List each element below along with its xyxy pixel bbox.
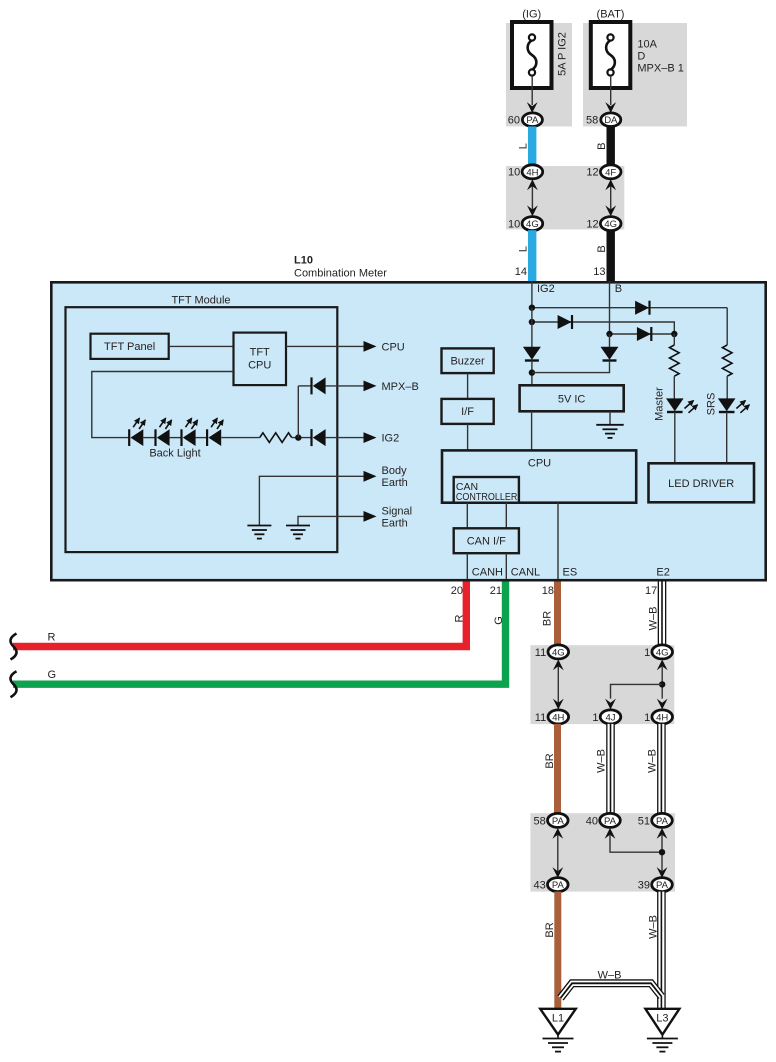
svg-text:4G: 4G: [552, 647, 565, 658]
svg-text:10: 10: [508, 219, 520, 231]
wire L cyan upper: [528, 126, 536, 165]
node dot B row3: [606, 331, 612, 337]
gray bg connector block 3: [530, 813, 675, 891]
connector 4H block2 right: [652, 710, 673, 724]
5V IC box: [520, 385, 624, 411]
wire fuse IG to connector: [531, 76, 533, 105]
svg-text:Buzzer: Buzzer: [450, 356, 485, 368]
svg-text:G: G: [493, 616, 505, 625]
wire W-B horizontal link: [561, 983, 662, 998]
svg-text:4H: 4H: [526, 167, 538, 178]
wire IF to CPU: [467, 424, 469, 451]
svg-text:B: B: [615, 283, 622, 295]
wire MPX-B row: [298, 385, 311, 387]
wire LED2-LED3: [170, 437, 182, 439]
svg-text:IG2: IG2: [537, 283, 555, 295]
svg-text:10: 10: [508, 167, 520, 179]
svg-text:21: 21: [490, 585, 502, 597]
wire SRS column: [726, 308, 728, 345]
wire body earth: [259, 476, 364, 525]
wire CC to CANIF left: [466, 503, 468, 529]
connector 4G left: [522, 217, 543, 231]
node dot master junction: [671, 331, 677, 337]
arrow MPX-B: [364, 381, 377, 392]
svg-text:TFT: TFT: [250, 346, 270, 358]
svg-text:1: 1: [644, 712, 650, 724]
wire resistor to master LED: [673, 376, 675, 399]
wire B column down: [609, 334, 611, 347]
svg-text:CPU: CPU: [528, 457, 551, 469]
CPU box: [442, 450, 636, 502]
connector PA (IG): [522, 113, 542, 127]
wire W-B upper: [658, 582, 667, 647]
wire master LED to driver: [674, 412, 676, 463]
svg-text:4F: 4F: [605, 167, 616, 178]
LED backlight 2: [156, 418, 172, 446]
node B entry: [609, 281, 611, 334]
wire CANH to edge: [466, 553, 468, 579]
svg-text:Signal: Signal: [382, 505, 413, 517]
wire B black upper: [607, 126, 615, 165]
arrow Body Earth: [364, 471, 377, 482]
svg-text:L: L: [518, 246, 530, 252]
svg-text:L10: L10: [294, 255, 313, 267]
wire row1 IG2 to SRS column: [532, 307, 727, 309]
wire W-B lower: [657, 892, 666, 1009]
svg-text:W–B: W–B: [647, 749, 659, 773]
wire TFT Panel to TFT CPU: [169, 345, 234, 347]
gray bg connector block 2: [530, 645, 674, 724]
svg-text:B: B: [596, 245, 608, 252]
connector PA 39: [652, 878, 673, 892]
svg-text:CONTROLLER: CONTROLLER: [456, 491, 518, 503]
wire resistor to node: [292, 437, 311, 439]
connector 4G right: [600, 217, 621, 231]
CAN CONTROLLER box: [454, 477, 519, 503]
svg-text:G: G: [48, 669, 57, 681]
node dot IG2 row1: [529, 305, 535, 311]
LED SRS: [718, 398, 750, 412]
connector 4H: [522, 165, 543, 179]
svg-text:5A P IG2: 5A P IG2: [557, 32, 569, 76]
ground TFT signal earth: [286, 526, 310, 539]
arrow into DA: [605, 102, 616, 113]
svg-text:BR: BR: [542, 611, 554, 626]
svg-text:(IG): (IG): [522, 9, 541, 21]
node IG2 entry: [531, 281, 533, 308]
wire L cyan lower: [528, 230, 536, 281]
break symbol green: [10, 671, 16, 697]
svg-text:L3: L3: [656, 1013, 668, 1025]
svg-text:1: 1: [644, 647, 650, 659]
wire B black lower: [607, 230, 615, 281]
diode B down: [601, 347, 619, 361]
svg-text:PA: PA: [656, 816, 669, 827]
ground symbol L1: [543, 1035, 574, 1052]
diode MPX-B row (TFT): [312, 377, 326, 394]
ground symbol L3: [647, 1035, 678, 1052]
svg-text:W–B: W–B: [596, 749, 608, 773]
fuse value 10A D MPX-B 1: [637, 39, 683, 75]
svg-text:43: 43: [534, 880, 546, 892]
svg-text:W–B: W–B: [598, 970, 622, 982]
wire CC to CANIF right: [505, 503, 507, 529]
svg-text:4H: 4H: [656, 712, 668, 723]
I/F box: [442, 399, 494, 424]
resistor master: [670, 345, 680, 376]
svg-text:LED DRIVER: LED DRIVER: [668, 478, 734, 490]
combination meter box L10: [51, 282, 765, 580]
resistor SRS: [722, 345, 732, 376]
svg-text:SRS: SRS: [706, 393, 718, 416]
wire master column: [673, 334, 675, 345]
svg-text:Earth: Earth: [382, 477, 408, 489]
LED master: [666, 398, 698, 412]
arrow into PA: [527, 102, 538, 113]
resistor backlight: [260, 433, 292, 443]
connector PA 58: [548, 813, 569, 827]
wire 5VIC to ground: [609, 411, 611, 425]
TFT CPU box: [234, 333, 287, 386]
arrow Signal Earth: [364, 511, 377, 522]
wire signal earth: [298, 516, 364, 525]
svg-text:MPX–B 1: MPX–B 1: [637, 63, 683, 75]
svg-text:58: 58: [534, 815, 546, 827]
svg-text:CPU: CPU: [382, 342, 405, 354]
svg-text:PA: PA: [552, 880, 565, 891]
svg-text:Combination Meter: Combination Meter: [294, 268, 387, 280]
diode row1: [635, 301, 649, 315]
wire R red CANH: [13, 582, 466, 647]
svg-text:1: 1: [592, 712, 598, 724]
svg-text:10A: 10A: [637, 39, 657, 51]
svg-text:51: 51: [638, 815, 650, 827]
double arrow left block1: [527, 179, 538, 216]
svg-text:Body: Body: [382, 465, 408, 477]
svg-text:PA: PA: [552, 816, 565, 827]
svg-text:4G: 4G: [526, 219, 539, 230]
wire W-B mid left: [606, 724, 615, 816]
svg-text:B: B: [596, 143, 608, 150]
wire TFT CPU left down to backlight: [92, 372, 234, 438]
wire LED4 to resistor: [221, 437, 260, 439]
wire LED3-LED4: [196, 437, 208, 439]
wire diode to IG2 arrow: [326, 437, 364, 439]
arrow split block2 right: [605, 660, 668, 710]
svg-text:D: D: [637, 51, 645, 63]
svg-text:13: 13: [593, 266, 605, 278]
wire 5VIC to CPU: [531, 411, 533, 450]
svg-text:60: 60: [508, 115, 520, 127]
wire node up to MPX-B row: [297, 386, 299, 438]
svg-text:CPU: CPU: [248, 359, 271, 371]
wire SRS LED to driver: [726, 412, 728, 463]
double arrow block3 left: [552, 828, 563, 878]
wire row3 B to master column: [610, 333, 675, 335]
LED backlight 3: [182, 418, 198, 446]
svg-text:4G: 4G: [656, 647, 669, 658]
svg-text:BR: BR: [544, 922, 556, 937]
svg-text:20: 20: [451, 585, 463, 597]
svg-text:PA: PA: [604, 816, 617, 827]
wire BR upper: [554, 582, 561, 647]
svg-text:E2: E2: [656, 567, 669, 579]
svg-text:39: 39: [638, 880, 650, 892]
ground triangle L1: [540, 1009, 576, 1035]
fuse 10A D MPX-B 1: [591, 22, 631, 88]
LED backlight 4: [207, 418, 223, 446]
svg-text:58: 58: [586, 115, 598, 127]
svg-text:12: 12: [586, 167, 598, 179]
double arrow block2 left: [553, 660, 564, 710]
connector 4H block2 left: [548, 710, 569, 724]
svg-text:Back Light: Back Light: [149, 447, 200, 459]
svg-text:4J: 4J: [605, 712, 615, 723]
svg-text:(BAT): (BAT): [597, 9, 625, 21]
svg-text:W–B: W–B: [648, 607, 660, 631]
ground TFT body earth: [247, 526, 271, 539]
svg-text:I/F: I/F: [461, 406, 474, 418]
connector PA 40: [600, 813, 621, 827]
svg-text:CANH: CANH: [472, 567, 503, 579]
connector 4G block2 right: [652, 645, 673, 659]
diode IG2 row (TFT): [312, 429, 326, 446]
svg-text:17: 17: [645, 585, 657, 597]
svg-text:L: L: [518, 143, 530, 149]
svg-text:12: 12: [586, 219, 598, 231]
wire B diode to junction: [532, 361, 610, 373]
svg-text:11: 11: [535, 712, 546, 724]
svg-text:TFT Panel: TFT Panel: [104, 341, 155, 353]
wire resistor to SRS LED: [726, 376, 728, 399]
connector 4G block2 left: [548, 645, 569, 659]
connector 4J: [600, 710, 621, 724]
svg-text:4G: 4G: [604, 219, 617, 230]
svg-text:PA: PA: [656, 880, 669, 891]
arrow split block3: [605, 828, 668, 878]
wire fuse BAT to connector: [610, 76, 612, 105]
wire G green CANL: [13, 582, 506, 685]
svg-text:Master: Master: [654, 387, 666, 421]
svg-text:DA: DA: [604, 115, 618, 126]
svg-text:ES: ES: [563, 567, 578, 579]
wire diode to MPX-B arrow: [326, 385, 364, 387]
node dot above 5V IC: [529, 369, 535, 375]
LED DRIVER box: [649, 463, 755, 502]
svg-text:R: R: [454, 614, 466, 622]
gray bg connector block 1: [506, 166, 624, 229]
double arrow right block1: [605, 179, 616, 216]
CAN I/F box: [454, 528, 519, 553]
node junction backlight: [295, 434, 301, 440]
svg-text:40: 40: [586, 815, 598, 827]
svg-text:L1: L1: [552, 1013, 564, 1025]
wire row2 IG2 to jog: [532, 322, 674, 334]
TFT Panel box: [91, 334, 169, 359]
wire buzzer to IF: [467, 373, 469, 399]
connector PA 43: [548, 878, 569, 892]
wire CANL to edge: [505, 553, 507, 579]
connector 4F: [600, 165, 621, 179]
diode IG2 down: [523, 347, 541, 361]
wire IG2 column down: [531, 308, 533, 347]
wire TFT CPU to CPU arrow: [286, 345, 364, 347]
LED backlight 1: [129, 418, 145, 446]
svg-text:5V IC: 5V IC: [558, 393, 586, 405]
fuse 5A P IG2: [512, 22, 552, 88]
svg-text:Earth: Earth: [382, 517, 408, 529]
diode row3: [637, 327, 651, 341]
svg-text:R: R: [48, 632, 56, 644]
gray bg fuse IG: [506, 23, 572, 126]
wire IG2 diode to node: [531, 361, 533, 386]
svg-text:IG2: IG2: [382, 433, 400, 445]
TFT Module box: [66, 307, 338, 552]
svg-text:CANL: CANL: [511, 567, 540, 579]
svg-text:BR: BR: [544, 753, 556, 768]
svg-text:CAN I/F: CAN I/F: [467, 536, 506, 548]
arrow IG2: [364, 432, 377, 443]
wire BR mid: [554, 724, 561, 816]
ground triangle L3: [645, 1009, 679, 1035]
svg-text:11: 11: [535, 647, 546, 659]
wire LED1-LED2: [143, 437, 155, 439]
connector PA 51: [652, 813, 673, 827]
svg-text:MPX–B: MPX–B: [382, 381, 419, 393]
break symbol red: [10, 634, 16, 660]
Buzzer box: [442, 348, 494, 373]
node dot IG2 row2: [529, 319, 535, 325]
diode row2: [558, 315, 572, 329]
svg-text:PA: PA: [526, 115, 539, 126]
wire W-B mid right: [657, 724, 666, 816]
wire ES to edge: [557, 503, 559, 580]
arrow CPU: [364, 341, 377, 352]
wire BR lower: [554, 892, 561, 1009]
connector DA: [601, 113, 621, 127]
ground 5V IC: [596, 425, 623, 438]
svg-text:18: 18: [542, 585, 554, 597]
gray bg fuse BAT: [583, 23, 687, 126]
svg-text:14: 14: [515, 266, 527, 278]
svg-text:4H: 4H: [552, 712, 564, 723]
svg-text:TFT Module: TFT Module: [171, 294, 230, 306]
svg-text:W–B: W–B: [647, 915, 659, 939]
